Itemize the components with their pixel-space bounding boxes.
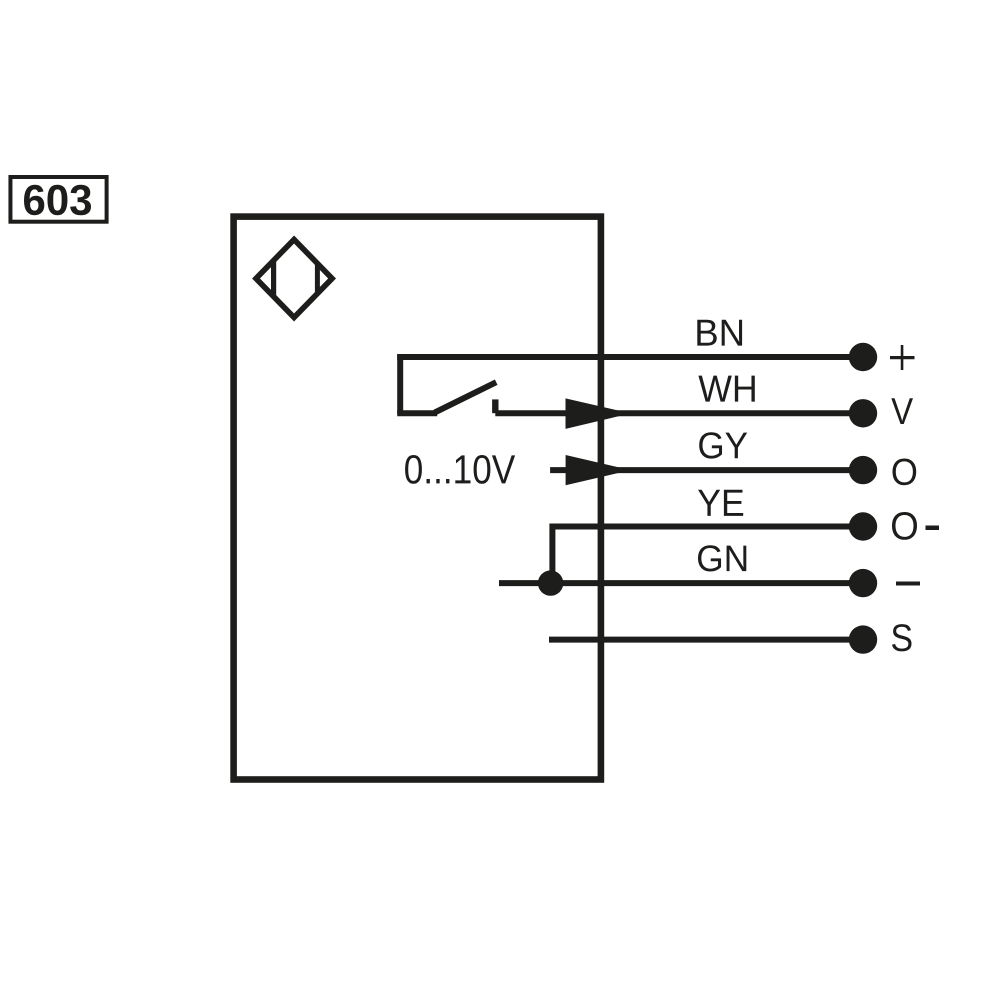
terminal minus (849, 569, 877, 597)
label O- (892, 512, 917, 540)
terminal O (849, 456, 877, 484)
terminal O- (849, 512, 877, 540)
inductive sensor symbol U1 (diamond with core lines) (256, 240, 332, 318)
arrow on WH wire (566, 398, 631, 429)
terminal V (849, 399, 877, 427)
label WH (698, 376, 754, 402)
wire YE with bend down to GN junction (552, 527, 863, 584)
terminal + (849, 343, 877, 371)
junction dot on GN wire (538, 570, 563, 595)
sensor body outline (234, 217, 601, 780)
label V (891, 398, 913, 424)
wire GN (499, 580, 863, 586)
label GY (699, 432, 747, 458)
figure number box 603 (10, 177, 106, 222)
label YE (698, 490, 743, 516)
wire WH (495, 410, 863, 416)
label 0...10V (405, 455, 515, 484)
label minus (896, 582, 920, 586)
wire S (549, 637, 863, 643)
label BN (697, 320, 742, 346)
wire GY (550, 467, 863, 473)
wire BN (397, 354, 863, 360)
label + (890, 345, 915, 370)
label GN (698, 545, 746, 571)
wire leg from BN down to switch (397, 354, 403, 413)
label S (892, 624, 912, 651)
terminal S (849, 625, 877, 653)
label O (893, 459, 917, 486)
arrow on GY wire (566, 455, 631, 485)
switch S1 contact (397, 382, 496, 413)
